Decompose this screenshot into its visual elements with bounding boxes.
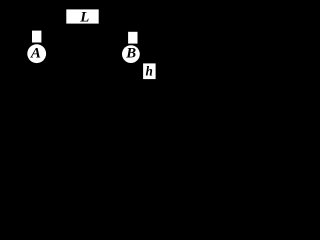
- background: [0, 0, 174, 106]
- svg-text:h: h: [146, 64, 153, 79]
- block above ball A: [32, 31, 41, 43]
- label h box: [143, 63, 156, 79]
- block above ball B: [128, 32, 137, 44]
- label L box: [66, 9, 98, 25]
- svg-text:L: L: [79, 10, 89, 26]
- svg-text:B: B: [125, 46, 136, 62]
- ball A: [27, 44, 46, 63]
- ball B: [122, 45, 140, 63]
- svg-text:A: A: [30, 45, 41, 61]
